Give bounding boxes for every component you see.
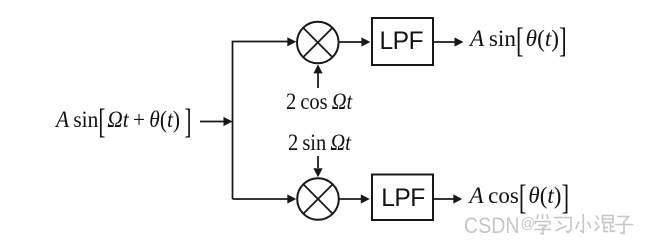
wire: M1 to top LPF bbox=[339, 37, 371, 46]
watermark glyph: hun (mix) bbox=[595, 216, 615, 232]
wire: carrier 2sin into M2 (down arrow) bbox=[313, 156, 322, 177]
watermark: CSDN bbox=[464, 215, 519, 238]
watermark: at-sign bbox=[521, 217, 536, 232]
watermark glyph: xi (practice) bbox=[555, 218, 572, 233]
watermark glyph: zi (child) bbox=[616, 217, 633, 234]
label: LPF U1 bbox=[380, 30, 424, 55]
wire: bottom branch to multiplier M2 bbox=[233, 194, 297, 203]
wire: bottom LPF output bbox=[434, 194, 463, 203]
wire: input signal into branch node bbox=[200, 117, 233, 126]
wire: M2 to bottom LPF bbox=[339, 194, 370, 203]
multiplier M2 (bottom mixer) bbox=[297, 178, 339, 220]
wire: top LPF output bbox=[434, 37, 464, 46]
wire: vertical branch line bbox=[232, 42, 234, 200]
wire: top branch to multiplier M1 bbox=[232, 37, 297, 46]
value label: carrier 2sin(Omega t) bbox=[288, 131, 351, 154]
label: LPF U2 bbox=[381, 187, 425, 212]
watermark glyph: xiao (small) bbox=[576, 215, 591, 233]
wire: carrier 2cos into M1 (up arrow) bbox=[313, 64, 322, 88]
value label: output A cos[theta(t)] bbox=[470, 184, 570, 207]
value label: carrier 2cos(Omega t) bbox=[286, 90, 352, 113]
LPF block U1 (top low-pass filter) bbox=[372, 18, 433, 65]
watermark glyph: xue (learn) bbox=[535, 215, 551, 235]
value label: output A sin[theta(t)] bbox=[470, 27, 567, 50]
multiplier M1 (top mixer) bbox=[297, 22, 339, 64]
value label: input signal A sin[Omega t + theta(t)] bbox=[56, 108, 191, 131]
LPF block U2 (bottom low-pass filter) bbox=[372, 175, 433, 221]
